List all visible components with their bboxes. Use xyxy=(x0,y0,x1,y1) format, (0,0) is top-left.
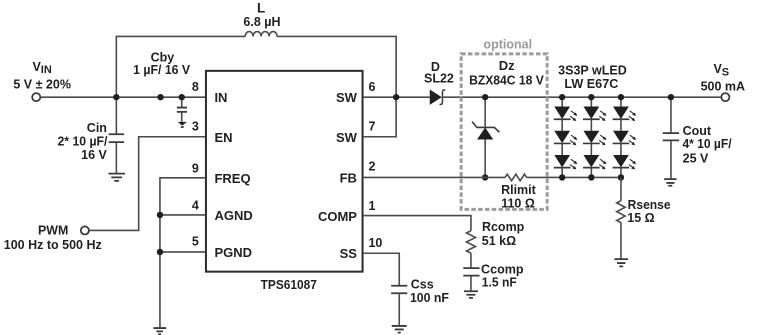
svg-text:AGND: AGND xyxy=(214,208,252,223)
capacitor Cout xyxy=(663,97,679,178)
svg-text:Cout: Cout xyxy=(683,124,712,138)
capacitor Ccomp xyxy=(463,253,479,290)
junction dot zener top xyxy=(482,94,488,100)
junction dot LED bottom 3 xyxy=(618,174,624,180)
wire LED column 2 xyxy=(590,97,592,177)
capacitor Css xyxy=(391,286,407,326)
svg-text:4* 10 µF/: 4* 10 µF/ xyxy=(682,137,732,151)
wire SW7 up xyxy=(363,97,396,137)
terminal VIN xyxy=(32,93,40,101)
ground Css xyxy=(392,326,407,333)
svg-text:8: 8 xyxy=(192,80,199,94)
svg-text:FB: FB xyxy=(340,171,357,186)
junction dot Cout xyxy=(668,94,674,100)
junction dot LED top 3 xyxy=(618,94,624,100)
svg-text:EN: EN xyxy=(214,130,232,145)
svg-text:5 V ± 20%: 5 V ± 20% xyxy=(13,77,71,91)
svg-text:SL22: SL22 xyxy=(424,72,454,86)
svg-text:25 V: 25 V xyxy=(683,151,709,165)
svg-text:6: 6 xyxy=(368,80,375,94)
inductor L xyxy=(245,32,277,37)
optional dashed box xyxy=(461,54,547,209)
wire top loop left xyxy=(116,36,245,97)
svg-text:9: 9 xyxy=(192,161,199,175)
svg-text:Css: Css xyxy=(411,278,434,292)
wire FB xyxy=(363,176,505,178)
ground Cby small xyxy=(178,122,187,127)
svg-text:SW: SW xyxy=(336,130,358,145)
LED row3 col1 xyxy=(554,155,577,170)
capacitor Cin xyxy=(109,97,125,173)
wire PWM to EN xyxy=(89,137,205,231)
wire LED bottom bus xyxy=(527,176,621,178)
junction dot SW xyxy=(393,94,399,100)
svg-text:SW: SW xyxy=(336,90,358,105)
svg-text:100 nF: 100 nF xyxy=(410,291,449,305)
LED row1 col2 xyxy=(583,107,606,122)
terminal PWM xyxy=(81,226,89,234)
resistor Rsense xyxy=(617,201,625,223)
svg-text:COMP: COMP xyxy=(318,209,357,224)
LED row2 col2 xyxy=(583,131,606,146)
svg-text:Rcomp: Rcomp xyxy=(482,220,525,234)
svg-text:PGND: PGND xyxy=(214,245,252,260)
ground Cin xyxy=(108,174,125,181)
junction dot LED top 2 xyxy=(588,94,594,100)
svg-text:3: 3 xyxy=(192,120,199,134)
svg-text:7: 7 xyxy=(368,120,375,134)
wire LED column 1 xyxy=(561,97,563,177)
resistor Rcomp xyxy=(466,231,475,253)
junction dot PGND xyxy=(157,249,163,255)
svg-text:L: L xyxy=(257,1,265,16)
wire diode to output rail xyxy=(443,96,721,98)
op-amp U1 IC body TPS61087 xyxy=(206,71,363,272)
junction dot LED top 1 xyxy=(559,94,565,100)
svg-text:500 mA: 500 mA xyxy=(701,79,745,93)
ground Ccomp xyxy=(464,291,478,298)
junction dot LED bottom 1 xyxy=(559,174,565,180)
LED row3 col2 xyxy=(583,155,606,170)
svg-text:IN: IN xyxy=(214,90,227,105)
ground Rsense xyxy=(614,259,628,266)
svg-text:16 V: 16 V xyxy=(81,148,107,162)
junction dot mid rail xyxy=(157,94,163,100)
wire top loop right xyxy=(277,36,396,97)
svg-text:1 µF/ 16 V: 1 µF/ 16 V xyxy=(133,63,191,77)
wire AGND xyxy=(160,214,206,216)
terminal VS xyxy=(721,93,729,101)
svg-text:51 kΩ: 51 kΩ xyxy=(482,234,516,248)
svg-text:BZX84C 18 V: BZX84C 18 V xyxy=(469,73,544,87)
svg-text:LW E67C: LW E67C xyxy=(564,77,618,91)
LED row2 col3 xyxy=(613,131,636,146)
svg-text:1.5 nF: 1.5 nF xyxy=(482,276,517,290)
svg-text:1: 1 xyxy=(368,199,375,213)
svg-text:TPS61087: TPS61087 xyxy=(261,277,317,292)
resistor Rlimit xyxy=(505,174,526,181)
svg-text:Ccomp: Ccomp xyxy=(481,262,524,276)
svg-text:5: 5 xyxy=(192,235,199,249)
svg-text:PWM: PWM xyxy=(38,224,68,238)
svg-text:FREQ: FREQ xyxy=(214,171,250,186)
svg-text:Cin: Cin xyxy=(87,121,107,135)
zener diode Dz xyxy=(472,97,499,177)
wire COMP xyxy=(363,216,471,231)
LED row1 col3 xyxy=(613,107,636,122)
wire FREQ to gnd bus xyxy=(160,178,206,328)
junction dot LED bottom 2 xyxy=(588,174,594,180)
wire PGND xyxy=(160,251,206,253)
ground bus bottom xyxy=(153,328,166,334)
diode D SL22 xyxy=(430,90,446,105)
svg-text:2: 2 xyxy=(368,160,375,174)
svg-text:4: 4 xyxy=(192,198,199,212)
wire SS xyxy=(363,253,399,285)
svg-text:6.8 µH: 6.8 µH xyxy=(243,15,280,29)
wire Rsense bottom xyxy=(620,222,622,258)
svg-text:SS: SS xyxy=(340,246,358,261)
svg-text:Dz: Dz xyxy=(499,58,515,73)
capacitor Cby xyxy=(177,97,187,122)
svg-text:2* 10 µF/: 2* 10 µF/ xyxy=(57,135,108,149)
junction dot at Cin xyxy=(113,94,119,100)
junction dot at Cby xyxy=(179,94,185,100)
junction dot AGND xyxy=(157,212,163,218)
ground Cout xyxy=(664,179,676,186)
LED row3 col3 xyxy=(613,155,636,170)
junction dot zener bottom xyxy=(482,174,488,180)
svg-text:110 Ω: 110 Ω xyxy=(501,196,535,210)
svg-text:Rsense: Rsense xyxy=(628,198,671,212)
svg-text:10: 10 xyxy=(368,236,382,250)
wire Rsense top xyxy=(620,177,622,200)
svg-text:100 Hz to 500 Hz: 100 Hz to 500 Hz xyxy=(4,238,102,252)
wire SW6 out xyxy=(363,96,430,98)
wire LED column 3 xyxy=(620,97,622,177)
wire input rail xyxy=(40,96,205,98)
svg-text:15 Ω: 15 Ω xyxy=(627,211,654,225)
svg-text:Rlimit: Rlimit xyxy=(501,183,537,197)
LED row2 col1 xyxy=(554,131,577,146)
svg-text:3S3P wLED: 3S3P wLED xyxy=(558,63,627,77)
svg-text:optional: optional xyxy=(483,38,532,52)
LED row1 col1 xyxy=(554,107,577,122)
